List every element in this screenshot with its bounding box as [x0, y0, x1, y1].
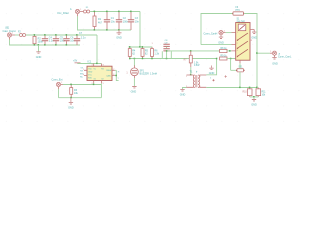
resistor R5	[141, 47, 149, 59]
wire down from P3	[58, 89, 60, 98]
svg-text:1: 1	[12, 33, 13, 35]
ground GND1	[116, 30, 122, 40]
ground GND9 under P5	[272, 58, 278, 66]
capacitor C6	[63, 35, 75, 45]
svg-text:GND: GND	[88, 71, 93, 73]
resistor R7 hanging	[184, 51, 201, 67]
ground GND5	[180, 90, 186, 97]
svg-text:Conn_CanL: Conn_CanL	[278, 56, 292, 59]
capacitor C2	[116, 12, 129, 31]
buzzer SP1	[126, 65, 149, 78]
wire P3 to IC bottom	[63, 84, 101, 86]
svg-text:VCC: VCC	[88, 74, 93, 76]
svg-text:+5V: +5V	[73, 61, 78, 63]
wire trafo lower-left to ground	[183, 88, 187, 90]
wire IC top	[78, 63, 102, 65]
resistor R6	[151, 47, 160, 59]
resistor R2	[33, 35, 44, 45]
fuse F2	[19, 34, 25, 37]
svg-text:BUZZER: BUZZER	[140, 74, 150, 76]
left coil	[193, 75, 195, 87]
wire to pin P5	[257, 52, 270, 54]
junction dots IC block	[70, 84, 94, 99]
wire bottom rail lower chain	[10, 39, 81, 45]
IC internal pin names	[88, 68, 112, 80]
svg-text:4k7: 4k7	[98, 21, 103, 24]
wire top loop	[201, 14, 233, 45]
capacitor C5	[53, 35, 66, 45]
capacitor C1	[104, 12, 116, 31]
capacitor C7	[74, 32, 86, 45]
svg-text:1: 1	[224, 30, 225, 32]
svg-text:SP1: SP1	[140, 71, 145, 73]
wire trafo bottom-right to right section	[206, 87, 257, 89]
wire down from R9 node	[231, 59, 237, 71]
svg-text:1: 1	[186, 76, 187, 78]
svg-text:2: 2	[237, 43, 238, 45]
wire buzzer to ground	[133, 78, 135, 86]
junction node at vertical/IC-top	[96, 63, 98, 65]
wire y44.6 to switch	[201, 44, 232, 46]
resistor R3	[70, 85, 79, 98]
svg-text:Conn_Ext: Conn_Ext	[52, 78, 63, 81]
wire switch bottom down	[239, 63, 241, 87]
pin P2 connector	[7, 33, 15, 40]
svg-text:8: 8	[103, 65, 104, 67]
svg-text:Vcc_Filter: Vcc_Filter	[57, 11, 69, 15]
polarity mark	[224, 75, 227, 78]
svg-text:G1: G1	[94, 79, 97, 81]
svg-text:EN: EN	[80, 73, 83, 75]
svg-text:R10: R10	[242, 91, 247, 93]
junction dots bottom rail	[94, 29, 120, 31]
wire trafo top-right up to y58 rail	[206, 59, 216, 75]
resistor R9 horizontal	[220, 56, 235, 60]
wire node top (y47)	[129, 46, 153, 48]
op-amp U1 body	[87, 66, 112, 80]
svg-text:2.2u: 2.2u	[81, 36, 86, 39]
svg-text:R9 1k: R9 1k	[221, 56, 228, 58]
switch pin numbers	[237, 32, 253, 59]
resistor R11	[256, 88, 266, 97]
transformer T1	[186, 71, 206, 88]
svg-text:10n: 10n	[135, 20, 140, 23]
IC top pins	[94, 64, 102, 67]
IC bottom pins	[94, 81, 102, 84]
ground GND3	[68, 98, 74, 110]
svg-text:0.5W: 0.5W	[194, 65, 200, 67]
svg-text:3: 3	[92, 65, 93, 67]
wire mid tap to right	[167, 50, 220, 52]
junction dots top rail	[94, 11, 132, 13]
capacitor C3	[128, 12, 140, 31]
resistor R1	[93, 12, 103, 31]
switch S1 indicator square	[238, 24, 246, 31]
right coil	[198, 75, 200, 87]
svg-text:GND: GND	[218, 41, 224, 44]
svg-text:1: 1	[270, 51, 271, 53]
split capacitor stack C8/C9	[162, 40, 171, 59]
IC pin numbers	[83, 65, 114, 86]
pin P1 supply	[75, 9, 83, 16]
svg-text:GND: GND	[116, 37, 122, 40]
svg-text:PTC: PTC	[236, 10, 241, 12]
wire IC pin down to rail	[100, 85, 102, 98]
core	[196, 75, 197, 88]
bottom rail	[59, 97, 102, 99]
IC right pins	[112, 70, 115, 75]
switch left pins	[232, 33, 236, 59]
pins	[187, 75, 207, 87]
ground GND4	[131, 87, 137, 94]
svg-text:1: 1	[80, 9, 81, 11]
svg-text:GND: GND	[68, 107, 74, 110]
IC left pins	[84, 70, 87, 75]
wire corner down to IC	[96, 35, 98, 64]
wire bottom rail	[78, 16, 132, 30]
junction dots lower chain	[34, 34, 78, 46]
svg-text:GND: GND	[251, 104, 257, 107]
switch right pin to ground	[250, 30, 254, 32]
wire top rail	[90, 11, 140, 13]
wire right pins bus	[115, 70, 119, 80]
svg-text:CANL: CANL	[106, 74, 111, 77]
ground GND6	[251, 32, 257, 39]
svg-text:1: 1	[237, 32, 238, 34]
svg-text:GND: GND	[180, 94, 186, 97]
svg-text:1: 1	[61, 82, 62, 84]
svg-text:NC: NC	[80, 76, 84, 78]
svg-text:TXD: TXD	[88, 68, 92, 70]
svg-text:G2: G2	[101, 79, 104, 81]
switch S1 body	[236, 23, 250, 61]
svg-text:4: 4	[83, 74, 84, 76]
capacitor C4	[42, 35, 54, 45]
wire vertical to middle block	[139, 12, 141, 48]
switch bottom pin	[239, 60, 241, 63]
switch levers	[237, 33, 248, 56]
pin P5 Conn_CanL	[270, 51, 277, 57]
resistor R8 horizontal	[220, 48, 232, 53]
svg-text:1: 1	[83, 69, 84, 71]
fuse F3	[232, 7, 244, 15]
fuse F1	[84, 10, 90, 13]
svg-text:1.3k: 1.3k	[154, 53, 159, 56]
wire right vertical lower	[256, 53, 258, 87]
svg-text:4: 4	[237, 57, 238, 59]
svg-text:GND: GND	[209, 72, 215, 75]
svg-text:RXD: RXD	[88, 77, 93, 79]
ground GND8	[251, 97, 257, 107]
wire node bottom (y58) long rail	[130, 58, 217, 60]
jumper SJ1	[236, 67, 245, 72]
svg-text:GND: GND	[131, 90, 137, 93]
svg-text:5: 5	[103, 83, 104, 85]
wire down to buzzer	[133, 59, 135, 67]
ground GND7 under P4	[218, 37, 224, 44]
svg-text:GND: GND	[272, 63, 278, 66]
net labels left of IC	[80, 67, 84, 78]
junction dots middle rails	[129, 46, 167, 59]
supply symbol VDD	[73, 61, 81, 64]
wire pin to fuse	[15, 34, 19, 36]
svg-text:U$1: U$1	[5, 28, 10, 30]
svg-text:IC1: IC1	[88, 61, 92, 64]
svg-text:GND: GND	[251, 37, 257, 40]
svg-text:CANH: CANH	[106, 69, 112, 72]
resistor R10	[242, 88, 252, 97]
svg-text:3: 3	[237, 50, 238, 52]
svg-text:tr: tr	[196, 71, 198, 74]
svg-text:R8 1k: R8 1k	[221, 48, 228, 50]
svg-text:Conn_CanH: Conn_CanH	[204, 32, 218, 35]
wire top rail lower chain	[26, 34, 97, 36]
ground GND10	[209, 66, 215, 76]
svg-text:1.5mH: 1.5mH	[150, 73, 157, 76]
svg-text:10u: 10u	[111, 20, 116, 23]
wire resistor bottoms	[250, 96, 259, 98]
wire fuse to right corner	[244, 14, 257, 54]
grid dots	[0, 0, 300, 124]
svg-text:GND: GND	[36, 56, 42, 59]
ground GND2	[36, 45, 42, 59]
resistor R4	[128, 47, 136, 59]
